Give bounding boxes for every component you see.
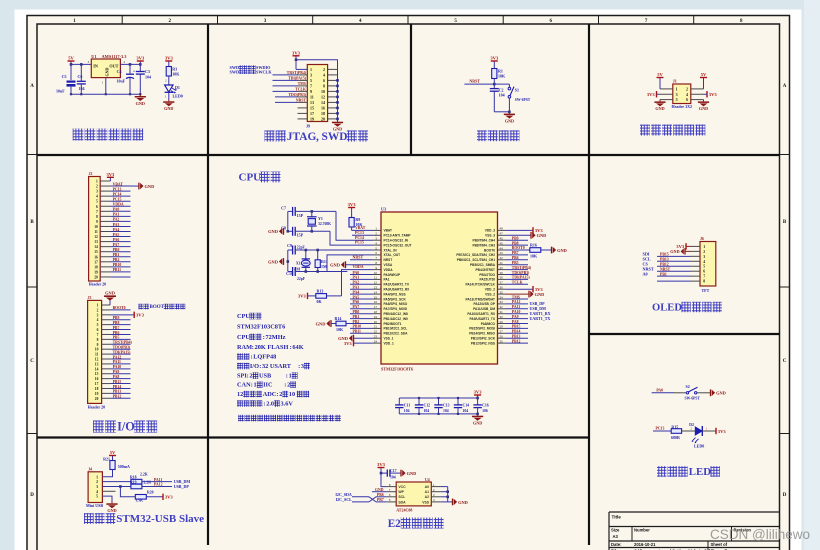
I2C SCL wire to SDA pin <box>352 497 387 502</box>
svg-text:9: 9 <box>96 220 98 224</box>
svg-text:BOOT0: BOOT0 <box>113 306 126 310</box>
svg-text:PC15: PC15 <box>113 198 122 202</box>
GND power symbol OLED pin2 <box>670 248 690 254</box>
resistor R15 680R <box>671 429 681 434</box>
junction at C17 branch <box>380 472 383 475</box>
svg-text:R15: R15 <box>671 425 678 430</box>
svg-text:104: 104 <box>463 409 469 413</box>
power symbol 3V3 at J2 pin1 <box>100 177 110 181</box>
wire R15 to D2 <box>682 430 695 432</box>
svg-text:PA3: PA3 <box>353 286 360 290</box>
svg-text:500mA: 500mA <box>118 464 130 469</box>
switch S2 SW-6PST <box>685 384 701 400</box>
svg-text:PB8: PB8 <box>512 241 519 245</box>
svg-text:104: 104 <box>145 75 151 80</box>
svg-text:4: 4 <box>97 318 99 322</box>
svg-text:VSS_1: VSS_1 <box>384 337 394 341</box>
ground symbol cap rail <box>472 414 483 426</box>
svg-text:WP: WP <box>398 490 404 494</box>
svg-text:5: 5 <box>97 323 99 327</box>
svg-text:PA3/USART2_RX: PA3/USART2_RX <box>384 288 411 292</box>
regulator U1 AMS1117-3.3 <box>91 59 120 78</box>
svg-text:PA1: PA1 <box>353 276 360 280</box>
svg-text:Header 20: Header 20 <box>89 282 107 287</box>
svg-text:14: 14 <box>374 290 378 294</box>
svg-text:1: 1 <box>289 373 292 380</box>
resistor R21 500mA <box>110 461 115 470</box>
wire R16 to ground <box>541 249 552 251</box>
svg-text:11: 11 <box>310 95 314 100</box>
resistor R11 1M <box>317 250 319 260</box>
JTAG left pin stubs and net labels <box>273 71 308 119</box>
ground symbol of regulator section <box>135 94 146 106</box>
svg-text:PA8/MCO: PA8/MCO <box>481 322 496 326</box>
svg-text:13: 13 <box>94 240 98 244</box>
power symbol 3V3 VDD_1 <box>354 342 373 344</box>
svg-text:PA12: PA12 <box>113 355 122 359</box>
svg-text:C9: C9 <box>287 243 292 248</box>
svg-text:10: 10 <box>321 89 325 94</box>
svg-text:STM32F103C8T6: STM32F103C8T6 <box>381 367 413 372</box>
svg-text:PA1: PA1 <box>113 213 120 217</box>
svg-text:BOOT0: BOOT0 <box>512 246 525 250</box>
section title: OLED LCD port <box>652 302 722 314</box>
svg-text:17: 17 <box>94 260 98 264</box>
capacitor C3 104 <box>139 64 141 71</box>
svg-text:3V3: 3V3 <box>165 56 174 61</box>
connector J6 TFT 8-pin <box>691 242 716 287</box>
svg-text:C3: C3 <box>145 69 150 74</box>
junction X1 bottom <box>305 270 308 273</box>
svg-text:18: 18 <box>321 111 325 116</box>
capacitor C4 electrolytic 10uF <box>117 64 136 94</box>
capacitor C10 22pF <box>288 271 293 273</box>
svg-text:2.2K: 2.2K <box>140 472 148 476</box>
svg-text::: : <box>252 344 254 351</box>
svg-text:SCL: SCL <box>398 495 405 499</box>
svg-text:I/O: I/O <box>117 420 135 434</box>
svg-text:ADC: ADC <box>263 391 277 398</box>
svg-text:104: 104 <box>390 475 396 479</box>
junction dots on EEPROM bus <box>446 490 449 493</box>
wire USB pin1 to R21 <box>102 470 112 477</box>
svg-text:TCLK: TCLK <box>512 281 523 285</box>
svg-text:STM32F103C8T6: STM32F103C8T6 <box>237 323 285 330</box>
CPU note text <box>238 415 341 422</box>
svg-text:PB9/TIM4_CH4: PB9/TIM4_CH4 <box>473 239 496 243</box>
svg-text:TCLK: TCLK <box>295 88 306 92</box>
svg-text:PB2: PB2 <box>113 258 120 262</box>
decoupling capacitor rails <box>399 398 477 414</box>
wire 3V3 down to VCC pin <box>381 473 387 487</box>
capacitor C16 106 <box>473 398 488 414</box>
net PC14 wire <box>336 211 373 240</box>
svg-text:39: 39 <box>500 271 504 275</box>
svg-text:43: 43 <box>500 251 504 255</box>
wire 3V3 to pin2 column <box>296 60 338 70</box>
svg-text:GND: GND <box>136 101 145 106</box>
svg-text:I2C_SCL: I2C_SCL <box>336 497 353 502</box>
svg-text:E2: E2 <box>388 518 401 530</box>
power symbol 3V3 above R9 <box>351 208 353 218</box>
svg-text:7: 7 <box>310 84 312 89</box>
svg-text:TDI(PA15): TDI(PA15) <box>512 276 531 280</box>
svg-text:44: 44 <box>500 246 504 250</box>
svg-text:GND: GND <box>473 421 482 426</box>
svg-text:J1: J1 <box>673 79 677 84</box>
svg-text:TMS: TMS <box>298 82 306 86</box>
svg-text:5V: 5V <box>701 72 707 77</box>
power symbol 3V3 VDD_2 <box>506 288 533 290</box>
svg-text:PA6: PA6 <box>353 300 360 304</box>
svg-text:C: C <box>30 359 34 364</box>
svg-text:U3: U3 <box>381 207 386 212</box>
svg-text:SW-6PST: SW-6PST <box>515 98 531 102</box>
svg-text:PA6: PA6 <box>113 238 120 242</box>
ground symbol for 32k crystal <box>268 228 283 235</box>
section title: system reset <box>477 130 519 141</box>
svg-text:22pF: 22pF <box>297 245 306 249</box>
junction at switch bottom <box>508 111 511 114</box>
svg-text:14: 14 <box>95 367 99 371</box>
ground symbol reset <box>504 112 515 124</box>
svg-text:PA4: PA4 <box>353 290 360 294</box>
junction at C6 <box>80 63 83 66</box>
svg-text:18: 18 <box>374 310 378 314</box>
svg-text:PB13: PB13 <box>512 335 521 339</box>
net NRST wire to MCU <box>350 259 373 261</box>
svg-text:R14: R14 <box>335 316 342 321</box>
svg-text:PA2/USART2_TX: PA2/USART2_TX <box>384 283 410 287</box>
svg-text:PB14/SPI2_MISO: PB14/SPI2_MISO <box>469 332 495 336</box>
svg-text:GND: GND <box>537 233 547 238</box>
MCU internal pin names <box>384 229 496 346</box>
svg-text:D1: D1 <box>175 85 180 90</box>
svg-text:PC14: PC14 <box>113 192 122 196</box>
I2C SDA wire to SCL pin <box>352 497 387 502</box>
svg-text:D: D <box>30 493 34 498</box>
SWD mode annotation line1 <box>230 65 272 70</box>
svg-text:SWD: SWD <box>322 131 348 143</box>
svg-text:PB5: PB5 <box>512 261 519 265</box>
svg-text::: : <box>286 373 288 380</box>
svg-text:GND: GND <box>107 508 116 513</box>
junction X1 top <box>305 249 308 252</box>
svg-text:VBAT: VBAT <box>384 229 392 233</box>
MCU pin stubs and numbers <box>373 227 507 344</box>
svg-text:U1: U1 <box>91 54 96 59</box>
power symbol 5V input <box>70 61 72 64</box>
svg-text:PB2: PB2 <box>353 320 360 324</box>
svg-text:GND: GND <box>330 263 340 268</box>
svg-text:30: 30 <box>500 315 504 319</box>
svg-text:20: 20 <box>95 397 99 401</box>
svg-text:VSS_2: VSS_2 <box>485 292 495 296</box>
svg-text:UART1_TX: UART1_TX <box>530 316 551 321</box>
svg-text:VBAT: VBAT <box>113 182 124 186</box>
power symbol 3V3 OLED pin1 <box>686 245 691 247</box>
wire USB pin2 D- to R18 <box>102 481 130 483</box>
svg-text:8: 8 <box>97 338 99 342</box>
svg-text:GND: GND <box>268 229 278 234</box>
net PC13 wire <box>352 234 373 236</box>
svg-text:TDO(PB3): TDO(PB3) <box>113 345 131 349</box>
svg-text:J4: J4 <box>88 467 92 471</box>
LED D2 <box>689 422 704 448</box>
svg-text:PC13-ANTI_TAMP: PC13-ANTI_TAMP <box>384 234 412 238</box>
svg-text:12: 12 <box>95 358 99 362</box>
svg-text:PA0: PA0 <box>353 271 360 275</box>
section title: E2 data storage <box>388 518 444 530</box>
svg-text:C7: C7 <box>281 206 286 211</box>
ground symbol EEPROM address pins <box>453 499 468 506</box>
svg-text:PB1: PB1 <box>660 272 667 276</box>
svg-text:42: 42 <box>500 256 504 260</box>
svg-text:10: 10 <box>289 391 295 398</box>
svg-text::: : <box>259 363 261 370</box>
svg-text:19: 19 <box>95 392 99 396</box>
svg-text:PA5/SPI1_SCK: PA5/SPI1_SCK <box>384 297 407 301</box>
svg-text:TDO(PB3): TDO(PB3) <box>512 271 530 275</box>
junction at 3V3 node <box>295 58 298 61</box>
svg-text:PA13/JTMS/SWDAT: PA13/JTMS/SWDAT <box>466 297 496 301</box>
svg-text:PB6: PB6 <box>512 256 519 260</box>
svg-text:16: 16 <box>374 300 378 304</box>
svg-text:PA11: PA11 <box>154 478 162 482</box>
svg-text:5: 5 <box>310 78 312 83</box>
svg-text:PA7: PA7 <box>353 305 360 309</box>
svg-text:CAN: CAN <box>237 382 251 389</box>
svg-text:IIC: IIC <box>263 382 273 389</box>
capacitor C13 104 <box>434 398 449 414</box>
section title: power supply regulation <box>73 129 144 141</box>
svg-text:GND: GND <box>375 488 384 492</box>
capacitor C9 22pF <box>288 249 293 251</box>
svg-text:PB12/SPI2_NSS: PB12/SPI2_NSS <box>471 341 495 345</box>
svg-text:26: 26 <box>500 335 504 339</box>
svg-text:24: 24 <box>374 339 378 343</box>
svg-text:5V: 5V <box>68 56 74 61</box>
svg-text:36: 36 <box>500 286 504 290</box>
svg-text:PB7: PB7 <box>113 326 120 330</box>
section title: JTAG SWD debug port <box>265 130 369 143</box>
svg-text:6: 6 <box>686 97 688 102</box>
svg-text:R21: R21 <box>103 456 110 461</box>
svg-text:Header 3X2: Header 3X2 <box>672 104 692 109</box>
svg-text:PB6: PB6 <box>113 331 120 335</box>
capacitor C7 15P <box>288 210 293 212</box>
svg-text:GND: GND <box>670 249 679 254</box>
svg-text:PB14: PB14 <box>113 385 122 389</box>
svg-text:6: 6 <box>703 270 705 274</box>
svg-text:Mini USB: Mini USB <box>86 503 103 508</box>
svg-text:9: 9 <box>97 343 99 347</box>
svg-text:PB15: PB15 <box>660 253 669 257</box>
svg-text:PB11/I2C2_SDA: PB11/I2C2_SDA <box>384 332 409 336</box>
svg-text:17: 17 <box>95 382 99 386</box>
svg-text:31: 31 <box>500 310 504 314</box>
svg-text:5: 5 <box>96 495 98 499</box>
svg-text:7: 7 <box>97 333 99 337</box>
svg-text:JTAG: JTAG <box>287 131 317 143</box>
wire 3V3 down to pin1 <box>295 60 297 70</box>
section title: USB slave power <box>84 513 204 525</box>
power symbol 3V3 at J3 pin3 <box>134 312 144 318</box>
svg-text:NRST: NRST <box>469 79 480 84</box>
svg-text:PC13: PC13 <box>113 187 122 191</box>
resistor R3 10K <box>166 67 171 77</box>
svg-text:37: 37 <box>500 281 504 285</box>
svg-text:Sheet of: Sheet of <box>711 542 728 547</box>
svg-text:10K: 10K <box>498 74 506 79</box>
svg-text:3V3: 3V3 <box>106 172 115 177</box>
svg-text:10uF: 10uF <box>56 89 65 94</box>
svg-text:NRST: NRST <box>660 267 671 271</box>
svg-text:TDI(PA15): TDI(PA15) <box>113 350 132 354</box>
junction at C4 <box>129 63 132 66</box>
section title: CPU system <box>239 172 281 184</box>
svg-text:1: 1 <box>97 304 99 308</box>
svg-text:PC14: PC14 <box>355 236 364 240</box>
svg-text:6: 6 <box>323 78 325 83</box>
svg-text:104: 104 <box>424 409 430 413</box>
svg-text:PB7: PB7 <box>512 251 519 255</box>
svg-text:35: 35 <box>500 290 504 294</box>
svg-text:PB9: PB9 <box>113 316 120 320</box>
svg-text:A3: A3 <box>613 534 619 539</box>
svg-text:RAM: RAM <box>237 344 252 351</box>
svg-text:GND: GND <box>407 471 417 476</box>
ground symbol to R14 <box>316 320 331 327</box>
svg-text:SDA: SDA <box>398 500 406 504</box>
svg-text:4: 4 <box>703 260 705 264</box>
capacitor C6 104 <box>80 64 82 81</box>
svg-text:C6: C6 <box>78 74 83 79</box>
svg-text:1M: 1M <box>321 264 327 269</box>
NRST net wire <box>464 83 509 85</box>
svg-text:GND: GND <box>268 259 278 264</box>
svg-text:14: 14 <box>94 245 98 249</box>
svg-text:C10: C10 <box>286 271 293 276</box>
svg-text:CSDN @lilihewo: CSDN @lilihewo <box>710 527 810 542</box>
section title: general IO port <box>93 420 157 434</box>
EEPROM right bus wires <box>441 487 453 502</box>
wire C7 to C8 left vertical <box>287 211 289 231</box>
svg-text:17: 17 <box>310 111 314 116</box>
svg-text:C5: C5 <box>62 74 67 79</box>
svg-text:A1: A1 <box>425 490 429 494</box>
svg-text:TDI(PA15): TDI(PA15) <box>288 77 307 81</box>
svg-text:15P: 15P <box>297 233 304 238</box>
designator U1 and value AMS1117-3.3 <box>91 54 127 59</box>
wire 5V to U1 IN <box>71 63 91 65</box>
power symbol 3V3 cap rail <box>477 395 479 398</box>
svg-text:27: 27 <box>500 330 504 334</box>
svg-text:14: 14 <box>321 100 325 105</box>
svg-text:PA8: PA8 <box>512 320 519 324</box>
svg-text:6: 6 <box>97 328 99 332</box>
net VBAT wire <box>352 229 373 231</box>
svg-text:SWD: SWD <box>230 69 240 74</box>
svg-text:3V3: 3V3 <box>344 341 353 346</box>
svg-text:BOOT0: BOOT0 <box>484 248 495 252</box>
svg-text:R18: R18 <box>130 475 137 479</box>
svg-text:OUT: OUT <box>109 63 118 68</box>
svg-text:3: 3 <box>310 73 312 78</box>
svg-text:10K: 10K <box>336 327 344 332</box>
svg-text:15: 15 <box>94 250 98 254</box>
svg-text::: : <box>290 344 292 351</box>
svg-text:GND: GND <box>164 106 173 111</box>
svg-text:1: 1 <box>676 87 678 92</box>
svg-text:STM32-USB Slave: STM32-USB Slave <box>116 513 204 525</box>
ground rail wire <box>71 93 140 95</box>
wire C9 C10 left vertical <box>287 250 289 272</box>
svg-text:40: 40 <box>500 266 504 270</box>
bottom wire reset <box>494 111 509 113</box>
svg-text:TRST(PB4): TRST(PB4) <box>512 266 532 270</box>
svg-text:PB9: PB9 <box>512 237 519 241</box>
svg-text:32 USART: 32 USART <box>262 363 292 370</box>
svg-text:PA0: PA0 <box>113 208 120 212</box>
svg-text:C4: C4 <box>117 69 122 74</box>
svg-text:17: 17 <box>374 305 378 309</box>
svg-text:21: 21 <box>374 325 378 329</box>
power symbol 3V3 right <box>707 91 717 97</box>
svg-text:3: 3 <box>676 92 678 97</box>
ground symbol at C17 <box>401 470 416 477</box>
svg-text:104: 104 <box>499 93 505 98</box>
svg-text:45: 45 <box>500 241 504 245</box>
svg-text:,: , <box>316 131 319 143</box>
svg-text:680R: 680R <box>671 435 680 440</box>
svg-text:PB12: PB12 <box>113 395 122 399</box>
svg-text:12: 12 <box>237 391 243 398</box>
svg-text:GND: GND <box>105 67 110 76</box>
svg-text:LQFP48: LQFP48 <box>253 354 276 361</box>
svg-text:D2: D2 <box>689 422 694 427</box>
svg-text:2016-10-21: 2016-10-21 <box>634 542 656 547</box>
wire U1 OUT to 3V3 <box>120 63 140 65</box>
wire D2 to 3V3 <box>702 430 716 432</box>
svg-text:2.0: 2.0 <box>266 401 274 408</box>
svg-text:PB13/SPI2_SCK: PB13/SPI2_SCK <box>471 337 496 341</box>
svg-text:1: 1 <box>310 67 312 72</box>
svg-text:10: 10 <box>94 225 98 229</box>
svg-text:TMS: TMS <box>512 295 520 299</box>
svg-text:1.5K: 1.5K <box>135 499 143 503</box>
svg-text:A2: A2 <box>425 495 429 499</box>
svg-text:C16: C16 <box>482 403 489 407</box>
junction R11 top <box>316 249 319 252</box>
net PA12 wire <box>142 485 172 487</box>
svg-text:TRST(PB4): TRST(PB4) <box>113 341 133 345</box>
SWD mode annotation line2 <box>230 69 273 74</box>
wire 8M to XTAL_OUT <box>327 255 373 272</box>
svg-text:PA12/USB_DP: PA12/USB_DP <box>473 302 495 306</box>
svg-text:PB11: PB11 <box>113 268 122 272</box>
ground symbol for 8M crystal <box>268 258 283 265</box>
boot mode annotation <box>139 304 186 310</box>
svg-text:25: 25 <box>500 339 504 343</box>
svg-text:PA6/SPI1_MISO: PA6/SPI1_MISO <box>384 302 408 306</box>
svg-text:IN: IN <box>93 63 98 68</box>
svg-text:C: C <box>783 359 787 364</box>
svg-text:34: 34 <box>500 295 504 299</box>
svg-text:XTAL_OUT: XTAL_OUT <box>384 253 401 257</box>
svg-text:PC15-OSC32_OUT: PC15-OSC32_OUT <box>384 243 412 247</box>
capacitor C2 104 <box>493 84 495 89</box>
